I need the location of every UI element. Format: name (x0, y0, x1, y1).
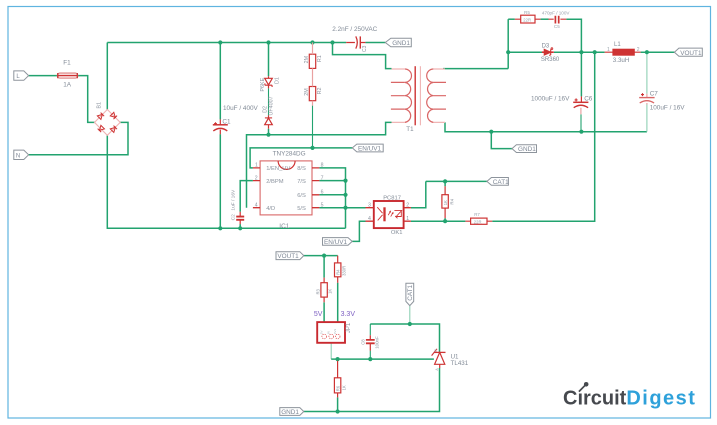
svg-text:330R: 330R (342, 266, 347, 276)
svg-text:5V: 5V (319, 331, 323, 335)
svg-text:1: 1 (255, 163, 258, 169)
svg-text:EN/UV1: EN/UV1 (324, 239, 348, 246)
svg-text:3: 3 (368, 202, 371, 208)
svg-text:C3: C3 (362, 45, 368, 52)
svg-text:SR360: SR360 (541, 57, 560, 63)
svg-text:10uF / 400V: 10uF / 400V (223, 105, 259, 112)
svg-text:5/S: 5/S (297, 206, 306, 212)
svg-text:6: 6 (321, 190, 324, 196)
svg-text:CırcuitDigest: CırcuitDigest (563, 388, 696, 410)
svg-text:T1: T1 (406, 126, 414, 133)
svg-text:4/D: 4/D (266, 206, 275, 212)
svg-text:22R: 22R (523, 18, 531, 23)
svg-text:3.3V: 3.3V (341, 311, 356, 318)
svg-text:22R: 22R (474, 219, 482, 224)
svg-text:N: N (16, 153, 20, 159)
svg-text:B1: B1 (97, 102, 103, 109)
svg-text:5V: 5V (314, 311, 323, 318)
svg-text:1K: 1K (443, 200, 448, 205)
svg-text:3V3: 3V3 (333, 329, 337, 335)
svg-text:R: R (434, 349, 438, 352)
svg-text:2: 2 (255, 175, 258, 181)
svg-text:VOUT1: VOUT1 (277, 253, 299, 260)
svg-text:C6: C6 (584, 95, 593, 102)
svg-text:8: 8 (321, 163, 324, 169)
svg-text:4: 4 (368, 216, 371, 222)
svg-text:CAT1: CAT1 (407, 284, 414, 300)
svg-text:R7: R7 (474, 212, 480, 217)
svg-text:C1: C1 (222, 119, 231, 126)
svg-text:C7: C7 (650, 91, 659, 98)
svg-text:D2: D2 (262, 106, 268, 113)
svg-text:D3: D3 (542, 43, 550, 49)
svg-text:1K: 1K (341, 385, 346, 390)
svg-text:TL431: TL431 (451, 360, 469, 367)
svg-text:C8: C8 (360, 339, 365, 345)
svg-text:1K: 1K (328, 289, 333, 294)
svg-text:1/EN_UV: 1/EN_UV (266, 166, 290, 172)
svg-text:5: 5 (321, 202, 324, 208)
svg-text:A: A (435, 368, 439, 371)
svg-text:GND1: GND1 (392, 40, 410, 47)
svg-text:7: 7 (321, 175, 324, 181)
svg-text:L1: L1 (614, 42, 621, 48)
svg-text:JP1: JP1 (346, 322, 352, 333)
svg-text:1A: 1A (63, 81, 72, 88)
svg-text:470pF / 100V: 470pF / 100V (542, 11, 571, 16)
svg-text:OK1: OK1 (391, 230, 403, 236)
svg-text:R4: R4 (336, 269, 341, 275)
svg-text:2M: 2M (304, 55, 310, 63)
svg-text:R1: R1 (317, 55, 323, 62)
svg-text:1000uF / 16V: 1000uF / 16V (531, 95, 570, 102)
svg-text:100nF: 100nF (375, 336, 380, 349)
svg-text:1: 1 (406, 216, 409, 222)
svg-text:2: 2 (406, 202, 409, 208)
svg-text:R4: R4 (449, 198, 454, 204)
svg-text:R5: R5 (524, 10, 530, 15)
svg-text:VOUT1: VOUT1 (680, 50, 702, 57)
svg-text:2/BPM: 2/BPM (266, 179, 284, 185)
svg-text:UF4007: UF4007 (269, 96, 275, 115)
svg-text:EN/UV1: EN/UV1 (358, 146, 382, 153)
svg-text:2: 2 (637, 47, 640, 53)
svg-text:1uF / 16V: 1uF / 16V (230, 189, 236, 211)
svg-text:GND1: GND1 (518, 146, 536, 153)
svg-text:CAT1: CAT1 (493, 179, 509, 186)
svg-text:1: 1 (607, 47, 610, 53)
svg-text:100uF / 16V: 100uF / 16V (650, 104, 686, 111)
svg-text:2M: 2M (304, 88, 310, 96)
svg-text:F1: F1 (63, 60, 71, 67)
svg-text:IN: IN (326, 331, 330, 334)
svg-text:2.2nF / 250VAC: 2.2nF / 250VAC (332, 26, 377, 33)
svg-text:R6: R6 (335, 385, 340, 391)
svg-text:PC817: PC817 (383, 196, 401, 202)
svg-text:GND1: GND1 (281, 409, 299, 416)
svg-text:D1: D1 (275, 77, 281, 84)
svg-text:R2: R2 (317, 87, 323, 94)
svg-text:8/S: 8/S (297, 166, 306, 172)
svg-text:P6KE: P6KE (260, 77, 266, 91)
svg-text:7/S: 7/S (297, 179, 306, 185)
svg-text:6/S: 6/S (297, 193, 306, 199)
svg-text:TNY284DG: TNY284DG (273, 151, 306, 158)
svg-text:3.3uH: 3.3uH (613, 57, 630, 64)
svg-text:C5: C5 (554, 24, 560, 29)
svg-text:4: 4 (255, 202, 258, 208)
svg-text:C2: C2 (231, 214, 237, 220)
svg-text:R3: R3 (315, 288, 320, 294)
svg-text:IC1: IC1 (279, 223, 289, 230)
